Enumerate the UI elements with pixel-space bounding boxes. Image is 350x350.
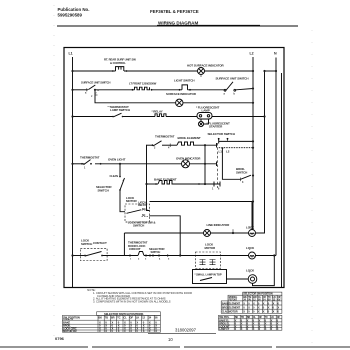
svg-text:TB: TB bbox=[105, 315, 108, 319]
svg-text:LIGHT SWITCH: LIGHT SWITCH bbox=[174, 79, 194, 83]
bus N bbox=[275, 58, 277, 256]
svg-text:LAMP CT: LAMP CT bbox=[219, 328, 230, 331]
wires: selector outputs to L2 bbox=[219, 140, 253, 142]
svg-text:SELECTOR SWITCH: SELECTOR SWITCH bbox=[208, 132, 235, 136]
svg-text:5995290589: 5995290589 bbox=[58, 13, 83, 18]
rt rear surface unit switch & control bbox=[116, 67, 124, 71]
right table 1 bbox=[221, 292, 282, 313]
wire: oven thermostat row bbox=[73, 163, 85, 165]
svg-text:OVEN LIGHT: OVEN LIGHT bbox=[108, 158, 126, 162]
bus N2 return bbox=[281, 73, 283, 288]
svg-text:BROIL ELEMENT: BROIL ELEMENT bbox=[178, 136, 201, 140]
inner neutral bus bbox=[256, 71, 265, 233]
svg-text:SURFACE UNIT SWITCH: SURFACE UNIT SWITCH bbox=[81, 81, 110, 85]
terminal ticks bbox=[87, 75, 241, 258]
svg-text:CLEAN: CLEAN bbox=[110, 174, 119, 178]
surface unit switch (right) bbox=[225, 82, 233, 92]
fluorescent starter bbox=[200, 119, 202, 121]
wire: lamp circuit row bbox=[73, 116, 114, 118]
svg-text:THERMOSTAT: THERMOSTAT bbox=[80, 156, 100, 160]
light switch bbox=[182, 85, 188, 90]
header rule bbox=[57, 25, 298, 27]
line indicator lamp bbox=[204, 230, 211, 237]
wire: broil element row bbox=[147, 144, 153, 146]
lock motor solenoid assembly bbox=[196, 252, 221, 269]
oven indicator lamp bbox=[182, 160, 190, 168]
lock indicator lamp circuit bbox=[227, 278, 249, 280]
svg-text:LT FRONT 1250/2350W: LT FRONT 1250/2350W bbox=[129, 82, 157, 86]
latch relay assembly bbox=[125, 204, 150, 222]
surface unit switch blade (left) bbox=[88, 85, 95, 90]
door lock enclosure left edge bbox=[123, 233, 125, 256]
thermostat lamp switch bbox=[114, 113, 122, 117]
wire: selector drop to broil switch bbox=[222, 148, 240, 179]
svg-text:LOCK: LOCK bbox=[246, 269, 255, 273]
bottom page dashed line bbox=[0, 346, 350, 348]
broil element bbox=[177, 142, 195, 145]
wire: branch to surface indicator bbox=[95, 90, 176, 103]
right table 2 bbox=[219, 315, 282, 330]
bus L2 bbox=[252, 57, 254, 230]
svg-text:LAMP: LAMP bbox=[202, 108, 210, 112]
svg-text:L2: L2 bbox=[250, 52, 254, 56]
thermostat door lock contact bbox=[138, 252, 144, 256]
svg-text:WIRING DIAGRAM: WIRING DIAGRAM bbox=[158, 21, 198, 26]
svg-text:0V: 0V bbox=[268, 297, 271, 301]
svg-text:LK: LK bbox=[136, 315, 139, 319]
surface indicator lamp bbox=[176, 99, 183, 106]
svg-text:RELAY: RELAY bbox=[138, 203, 146, 207]
wire: bake element row bbox=[147, 183, 159, 185]
svg-text:318002097: 318002097 bbox=[175, 328, 197, 333]
svg-text:& CONTROL: & CONTROL bbox=[110, 61, 126, 65]
svg-text:MOTOR: MOTOR bbox=[205, 246, 217, 250]
svg-text:* RELAY: * RELAY bbox=[152, 109, 163, 113]
svg-text:SWITCH: SWITCH bbox=[151, 250, 161, 254]
fluorescent lamp bbox=[197, 113, 212, 120]
footer text bbox=[55, 288, 197, 342]
bus L1 bbox=[72, 57, 74, 288]
diagram frame bbox=[64, 48, 284, 288]
svg-text:3. COMPONENTS WITH IN 5% NOT: 3. COMPONENTS WITH IN 5% NOT SHOWN ON AL… bbox=[93, 299, 171, 303]
svg-text:SURFACE INDICATOR: SURFACE INDICATOR bbox=[166, 92, 197, 96]
header text bbox=[58, 7, 199, 26]
svg-text:SWITCH: SWITCH bbox=[236, 170, 247, 174]
svg-text:* SMALL LAMP IN TOP: * SMALL LAMP IN TOP bbox=[195, 273, 222, 277]
svg-text:L1: L1 bbox=[69, 52, 73, 56]
svg-text:NO: NO bbox=[142, 208, 146, 211]
neutral jog bbox=[265, 70, 277, 72]
svg-text:CIRCUIT: CIRCUIT bbox=[129, 247, 141, 251]
svg-text:MOTOR DR: MOTOR DR bbox=[63, 329, 77, 333]
svg-text:10: 10 bbox=[168, 337, 173, 342]
svg-text:OF: OF bbox=[130, 315, 134, 319]
svg-text:0796: 0796 bbox=[55, 336, 65, 341]
svg-text:THERMOSTAT: THERMOSTAT bbox=[155, 135, 175, 139]
svg-text:SURFACE UNIT SWITCH: SURFACE UNIT SWITCH bbox=[216, 76, 249, 80]
hot surface indicator lamp bbox=[198, 68, 205, 75]
junction dots (all nodes) bbox=[71, 70, 277, 257]
svg-text:CL: CL bbox=[123, 315, 127, 319]
svg-text:MOTOR: MOTOR bbox=[229, 310, 238, 314]
svg-text:BAKE ELEMENT: BAKE ELEMENT bbox=[154, 178, 177, 182]
svg-text:CONTACT: CONTACT bbox=[93, 241, 107, 245]
svg-text:0V: 0V bbox=[278, 297, 281, 301]
wire: line indicator row bbox=[124, 232, 203, 234]
lt front surface element bbox=[135, 87, 150, 90]
selector terminal ticks bbox=[216, 143, 218, 148]
wire: latch feed to lock motor bbox=[150, 202, 253, 230]
svg-text:MOTOR: MOTOR bbox=[126, 199, 138, 203]
svg-text:L2: L2 bbox=[226, 150, 230, 154]
svg-text:SWITCH: SWITCH bbox=[98, 188, 109, 192]
svg-text:Publication No.: Publication No. bbox=[58, 7, 90, 12]
wire: latch contact to lock row bbox=[150, 216, 181, 256]
lock motor (upper) bbox=[249, 230, 256, 237]
wire: drop to latch relay bbox=[147, 145, 150, 211]
svg-text:CLN.: CLN. bbox=[222, 310, 228, 314]
wire: L1 to right-rear surface unit row bbox=[73, 70, 116, 72]
clean selector switch branch bbox=[119, 164, 121, 177]
thermostat contact (broil) bbox=[153, 141, 162, 146]
svg-text:HOT SURFACE INDICATOR: HOT SURFACE INDICATOR bbox=[187, 64, 225, 68]
oven thermostat switch bbox=[84, 160, 91, 165]
component name labels bbox=[69, 52, 278, 277]
svg-text:ELEMENT: ELEMENT bbox=[229, 301, 241, 305]
svg-text:BK: BK bbox=[98, 315, 102, 319]
svg-text:FEF367BL & FEF367CE: FEF367BL & FEF367CE bbox=[150, 9, 199, 14]
svg-text:BR: BR bbox=[111, 315, 115, 319]
svg-text:LINE INDICATOR: LINE INDICATOR bbox=[207, 223, 231, 227]
svg-text:L1: L1 bbox=[219, 150, 223, 154]
bake element bbox=[158, 181, 175, 185]
svg-text:SELECTOR SWITCH POSITIONS: SELECTOR SWITCH POSITIONS bbox=[104, 312, 144, 316]
svg-text:0V: 0V bbox=[258, 297, 261, 301]
svg-text:FEF367: FEF367 bbox=[229, 297, 238, 301]
svg-text:TC: TC bbox=[117, 315, 120, 319]
svg-text:ELEMENT: ELEMENT bbox=[229, 306, 241, 310]
svg-text:0V: 0V bbox=[248, 297, 251, 301]
svg-text:LAMP SWITCH: LAMP SWITCH bbox=[110, 108, 130, 112]
svg-text:NC: NC bbox=[142, 214, 146, 217]
fold marks bbox=[53, 5, 55, 345]
svg-text:OVEN INDICATOR: OVEN INDICATOR bbox=[176, 156, 201, 160]
line under 318002097 bbox=[148, 333, 216, 335]
svg-text:SWITCH: SWITCH bbox=[81, 242, 92, 246]
svg-text:LOCK: LOCK bbox=[246, 226, 255, 230]
bottom-left table bbox=[62, 312, 160, 332]
svg-text:LOCK: LOCK bbox=[246, 246, 255, 250]
svg-text:CONTACTS: CONTACTS bbox=[63, 318, 74, 321]
small lamp note box bbox=[193, 270, 227, 284]
lock switch contact assembly bbox=[80, 248, 107, 260]
broil switch bbox=[241, 175, 252, 179]
svg-text:STARTER: STARTER bbox=[209, 124, 223, 128]
wire: lock circuit row bbox=[73, 255, 85, 257]
wire: L1 surface unit switch row bbox=[73, 89, 89, 91]
lock motor bbox=[249, 252, 256, 259]
svg-text:SWITCH: SWITCH bbox=[133, 223, 144, 227]
relay coil bbox=[155, 114, 166, 117]
wire: selector switch column bbox=[204, 145, 206, 184]
